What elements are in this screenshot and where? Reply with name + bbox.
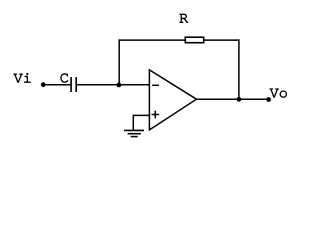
node Vi terminal dot [41, 82, 46, 87]
node Vo terminal dot [266, 97, 271, 102]
wire non-inverting input to ground [133, 114, 149, 116]
node Vo (output terminal label) [270, 89, 287, 98]
node junction dot at inverting input net [117, 83, 122, 88]
wire Vi terminal to capacitor C [43, 84, 70, 86]
node junction dot at output net [237, 97, 242, 102]
wire capacitor to op-amp inverting input [77, 84, 150, 86]
node Vi (input terminal label) [14, 73, 31, 82]
capacitor C left plate [70, 77, 72, 92]
capacitor C label [61, 73, 68, 82]
wire feedback right vertical [238, 39, 240, 99]
ground symbol [124, 129, 144, 131]
op-amp non-inverting input plus sign [152, 114, 160, 116]
resistor R label [180, 14, 188, 23]
op-amp U1 triangle [149, 70, 196, 130]
capacitor C right plate [75, 77, 77, 92]
wire op-amp output to Vo terminal [196, 98, 268, 100]
wire feedback top horizontal [119, 39, 240, 41]
wire feedback left vertical [118, 39, 120, 84]
op-amp inverting input minus sign [152, 84, 159, 86]
resistor R (box style) [185, 37, 203, 43]
